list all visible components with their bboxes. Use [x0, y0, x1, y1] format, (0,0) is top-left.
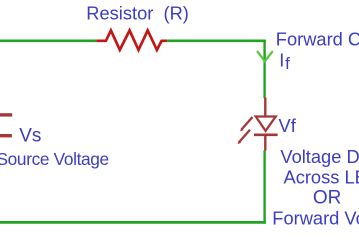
svg-text:Vs: Vs: [19, 125, 41, 146]
wire right vertical lower: [263, 150, 265, 223]
wire top-left segment: [0, 39, 97, 42]
svg-text:Resistor (R): Resistor (R): [86, 2, 189, 23]
LED emission arrow lower: [239, 130, 250, 143]
LED D1 triangle: [256, 117, 276, 131]
battery Vs plate bottom: [0, 134, 12, 137]
svg-text:Across LED: Across LED: [284, 167, 359, 188]
svg-text:If: If: [279, 50, 290, 73]
svg-text:Source Voltage: Source Voltage: [0, 149, 109, 169]
wire top-right segment: [167, 39, 266, 42]
LED D1 anode lead: [264, 98, 266, 117]
resistor R: [97, 30, 168, 50]
svg-text:OR: OR: [313, 188, 342, 209]
svg-text:Voltage Drop: Voltage Drop: [280, 146, 359, 167]
current direction arrow: [258, 52, 273, 61]
svg-text:Vf: Vf: [279, 115, 297, 136]
LED D1 cathode bar: [254, 134, 278, 137]
battery Vs plate top: [0, 113, 12, 116]
LED D1 cathode lead: [264, 135, 266, 151]
LED emission arrow upper: [242, 117, 253, 130]
svg-text:Forward Voltage: Forward Voltage: [272, 208, 359, 229]
wire right vertical upper: [263, 40, 265, 99]
wire bottom: [0, 221, 266, 224]
svg-text:Forward Current: Forward Current: [276, 28, 359, 49]
